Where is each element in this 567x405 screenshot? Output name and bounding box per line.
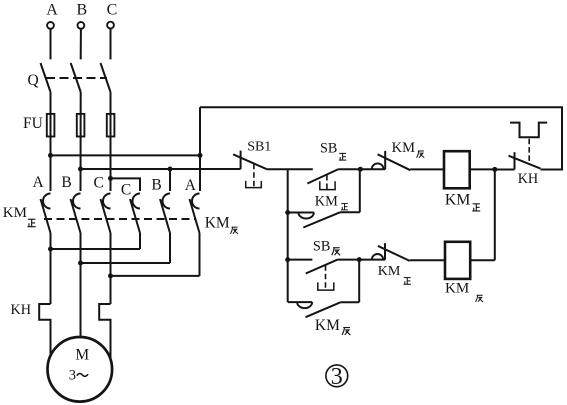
label KM forward coil <box>445 191 480 211</box>
fuse FU phase B <box>77 114 85 137</box>
wire pole 5 feed drop <box>169 169 171 191</box>
node junction dot phase C stub <box>108 176 113 181</box>
contactor KM reverse NC interlock contact <box>372 151 444 170</box>
wire phase A drop to switch <box>50 29 52 60</box>
pushbutton SB1 stop NC contact <box>233 151 266 188</box>
terminal A circle <box>47 22 54 29</box>
coil KM forward <box>444 151 470 188</box>
wire bus row 1 <box>51 154 201 156</box>
wire to KM reverse coil right <box>470 259 495 261</box>
wire SB1 to SB forward <box>267 168 313 170</box>
label KM forward interlock <box>378 263 411 284</box>
label KM reverse self-hold <box>315 317 351 335</box>
figure number 3 circled <box>326 364 348 390</box>
svg-text:KM: KM <box>205 215 230 232</box>
pushbutton SB reverse NO contact <box>288 259 338 290</box>
switch Q pole B blade <box>71 63 81 92</box>
wire phase C drop to switch <box>110 29 112 60</box>
wire coil KM forward to node <box>470 168 495 170</box>
label KM forward self-hold <box>315 194 348 210</box>
pushbutton SB forward label <box>320 140 346 160</box>
wire SB reverse output <box>338 259 385 261</box>
contactor KM forward auxiliary self-hold contact <box>288 169 360 227</box>
svg-text:SB1: SB1 <box>247 140 271 155</box>
contactor KM reverse auxiliary self-hold contact <box>288 260 360 318</box>
contactor KM forward NC interlock contact <box>372 243 445 261</box>
label KM reverse interlock <box>392 140 425 158</box>
node junction dot cross row 3 <box>108 273 113 278</box>
wire phase B switch to contact <box>80 92 82 191</box>
fuse FU phase C <box>107 114 115 137</box>
svg-text:KH: KH <box>11 302 32 318</box>
thermal relay KH heater element left <box>39 304 50 357</box>
thermal relay KH detector element <box>510 123 547 163</box>
wire branch vertical <box>287 169 289 302</box>
wire pole 3 output <box>110 233 112 304</box>
switch Q pole C blade <box>101 63 111 92</box>
wire cross connection row 2 <box>81 262 171 264</box>
svg-text:C: C <box>121 181 131 198</box>
contactor KM reverse main contact pole 5 <box>160 194 170 234</box>
wire phase C stub to pole 4 <box>111 178 141 191</box>
wire pole 1 output <box>50 233 52 304</box>
wire control loop top and right side <box>200 107 562 169</box>
terminal C circle <box>107 22 114 29</box>
label KM reverse main <box>205 215 238 234</box>
wire vertical x200 <box>199 107 201 191</box>
wire cross connection row 1 <box>51 248 141 250</box>
svg-text:B: B <box>61 174 71 191</box>
svg-text:KM: KM <box>3 205 27 221</box>
wire phase B drop to switch <box>80 29 82 60</box>
contactor KM reverse main contact pole 4 <box>130 194 140 234</box>
node junction dot common <box>492 167 497 172</box>
pushbutton SB reverse label <box>313 239 340 256</box>
svg-text:KM: KM <box>378 263 401 279</box>
svg-text:Q: Q <box>28 72 39 89</box>
label KM reverse coil <box>445 281 483 302</box>
svg-text:FU: FU <box>23 115 43 132</box>
node junction dot SB reverse output <box>357 257 362 262</box>
node junction dot phase B bus <box>78 167 83 172</box>
thermal relay KH NC contact <box>495 152 541 169</box>
coil KM reverse <box>445 242 470 279</box>
svg-text:KM: KM <box>445 191 470 208</box>
svg-text:KM: KM <box>392 140 415 156</box>
wire SB forward output <box>339 168 386 170</box>
svg-text:B: B <box>76 2 87 19</box>
svg-text:A: A <box>185 177 197 194</box>
node junction dot phase A bus <box>48 153 53 158</box>
wire pole 5 output <box>169 233 171 263</box>
node junction dot SB reverse branch <box>285 257 290 262</box>
svg-text:A: A <box>46 2 58 19</box>
switch Q mechanical link dashed <box>46 77 107 79</box>
svg-text:SB: SB <box>320 140 337 156</box>
svg-text:KM: KM <box>315 317 340 334</box>
svg-text:B: B <box>151 176 161 193</box>
svg-text:3: 3 <box>69 367 76 383</box>
node junction dot cross row 1 <box>48 247 53 252</box>
contactor KM forward main contact pole 2 <box>71 194 81 234</box>
motor 3-phase label <box>69 367 88 383</box>
wire phase C switch to contact <box>110 92 112 191</box>
thermal relay KH heater element right <box>99 304 110 360</box>
svg-text:KM: KM <box>445 281 469 297</box>
node junction dot SB forward output <box>358 167 363 172</box>
contactor KM forward main contact pole 1 <box>41 194 51 234</box>
svg-text:KH: KH <box>518 171 539 187</box>
node junction dot bus to control <box>198 153 203 158</box>
wire common node down <box>494 169 496 260</box>
fuse FU phase A <box>47 114 55 137</box>
label KM forward main <box>3 205 36 227</box>
svg-text:3: 3 <box>331 364 343 390</box>
svg-text:M: M <box>75 346 89 363</box>
node junction dot self-hold branch <box>285 210 290 215</box>
node junction dot cross row 2 <box>78 261 83 266</box>
wire cross connection row 3 <box>111 275 200 277</box>
node junction dot pole5 feed <box>168 167 173 172</box>
svg-text:SB: SB <box>313 239 331 255</box>
wire pole 2 output <box>80 233 82 337</box>
contactor KM reverse main contact pole 6 <box>190 194 200 234</box>
switch Q pole A blade <box>41 63 51 92</box>
svg-text:C: C <box>94 174 104 191</box>
svg-text:C: C <box>107 2 118 19</box>
wire bus row 2 <box>81 168 241 170</box>
main contacts mechanical link dashed <box>44 218 196 220</box>
motor M circle <box>48 337 113 402</box>
svg-text:KM: KM <box>315 194 338 210</box>
contactor KM forward main contact pole 3 <box>101 194 111 234</box>
wire pole 4 output <box>139 233 141 249</box>
svg-text:A: A <box>32 174 44 191</box>
wire phase A switch to contact <box>50 92 52 191</box>
pushbutton SB forward NO contact <box>307 169 338 190</box>
wire pole 6 output <box>199 233 201 276</box>
terminal B circle <box>78 22 85 29</box>
